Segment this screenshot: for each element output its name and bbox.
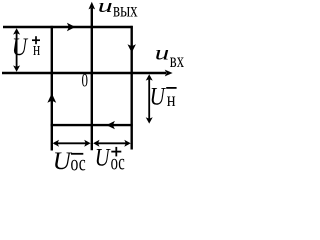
axis u_vyh arrowhead up: [89, 2, 96, 10]
axis u_vh arrowhead right: [165, 70, 173, 77]
label U_n+: [12, 34, 40, 61]
svg-text:вх: вх: [170, 50, 184, 72]
direction arrow left on bottom line: [106, 121, 115, 129]
direction arrow right on top line: [67, 23, 76, 31]
label u_vyh: [98, 0, 138, 22]
loop top line: [3, 26, 133, 28]
dimension arrow U_os- horizontal double arrow: [54, 142, 89, 144]
svg-text:U: U: [12, 34, 29, 61]
label U_os+: [95, 145, 125, 175]
loop left vertical line: [51, 26, 53, 151]
loop bottom line: [51, 124, 133, 126]
svg-text:н: н: [33, 40, 40, 60]
svg-text:U: U: [95, 145, 111, 172]
axis u_vh horizontal line: [2, 72, 166, 74]
axis u_vyh vertical line: [91, 8, 93, 150]
dimension arrow U_os+ horizontal double arrow: [96, 142, 129, 144]
svg-text:ос: ос: [71, 150, 86, 175]
label U_os-: [53, 148, 86, 175]
loop right vertical line: [130, 26, 132, 150]
dimension arrow U_n- vertical double arrow: [148, 76, 150, 121]
label U_n-: [150, 83, 177, 111]
svg-text:0: 0: [82, 71, 89, 92]
svg-text:u: u: [155, 43, 170, 65]
direction arrow down on right vertical: [128, 44, 136, 53]
dimension arrow U_n+ vertical double arrow: [16, 31, 18, 68]
svg-text:ос: ос: [111, 150, 125, 175]
svg-text:u: u: [98, 0, 113, 17]
direction arrow up on left vertical: [47, 93, 56, 103]
svg-text:н: н: [167, 89, 176, 111]
svg-text:U: U: [150, 83, 167, 110]
label u_vh: [155, 43, 184, 72]
svg-text:вых: вых: [113, 0, 138, 22]
